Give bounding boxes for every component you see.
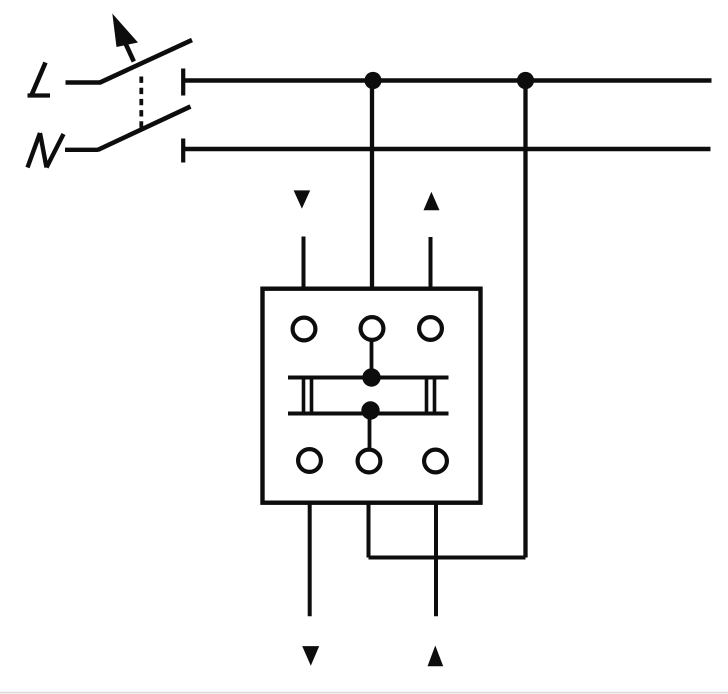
wire box bottom right exit <box>434 503 438 617</box>
switch S1 pole L fixed contact bar <box>181 69 185 96</box>
terminal circle 5 (bottom middle) <box>358 450 381 473</box>
bridge left end bar 1 <box>302 376 306 416</box>
arrow down (incoming feed above box) <box>294 190 311 208</box>
terminal circle 1 (top left) <box>293 318 316 341</box>
switch S1 pole L blade <box>100 40 192 83</box>
arrow down (bottom left load out) <box>302 646 319 666</box>
wire below up arrow <box>429 237 433 289</box>
wire horizontal connector (drop 2 to middle exit) <box>369 556 526 560</box>
wire link circle 2 to top rail <box>370 339 374 378</box>
wire L lead <box>66 80 102 84</box>
terminal circle 6 (bottom right) <box>424 450 447 473</box>
wire box bottom left exit <box>308 503 312 617</box>
wire box bottom middle exit <box>367 503 371 558</box>
terminal circle 3 (top right) <box>419 317 442 340</box>
wire L line <box>183 78 711 83</box>
junction dot A (L line / drop 1) <box>364 72 381 89</box>
bridge left end bar 2 <box>310 376 314 416</box>
switch actuator arrow <box>112 14 138 62</box>
wire link bottom dot to circle 5 <box>368 411 372 451</box>
wire N line <box>183 147 710 152</box>
junction dot B (L line / drop 2) <box>517 72 534 89</box>
label N <box>28 133 64 168</box>
terminal circle 4 (bottom left) <box>298 449 321 472</box>
wire below down arrow <box>302 237 306 289</box>
bridge top rail <box>288 376 449 380</box>
bridge right end bar 2 <box>433 376 437 416</box>
label L <box>28 63 51 96</box>
terminal box outline <box>263 289 481 503</box>
bridge bottom rail <box>288 412 449 416</box>
bridge junction dot top <box>362 368 380 386</box>
wire N lead <box>65 148 99 152</box>
arrow up (outgoing above box) <box>424 192 440 211</box>
wire drop 2 from junction B down <box>523 81 527 558</box>
arrow up (bottom right return) <box>428 646 444 667</box>
switch S1 pole N blade <box>98 107 191 150</box>
bridge junction dot bottom <box>361 401 379 419</box>
switch linkage dashed line <box>139 77 143 129</box>
switch S1 pole N fixed contact bar <box>181 139 185 163</box>
bridge right end bar 1 <box>425 376 429 416</box>
terminal circle 2 (top middle) <box>361 317 384 340</box>
wire drop 1 from junction A to box top <box>370 81 374 289</box>
